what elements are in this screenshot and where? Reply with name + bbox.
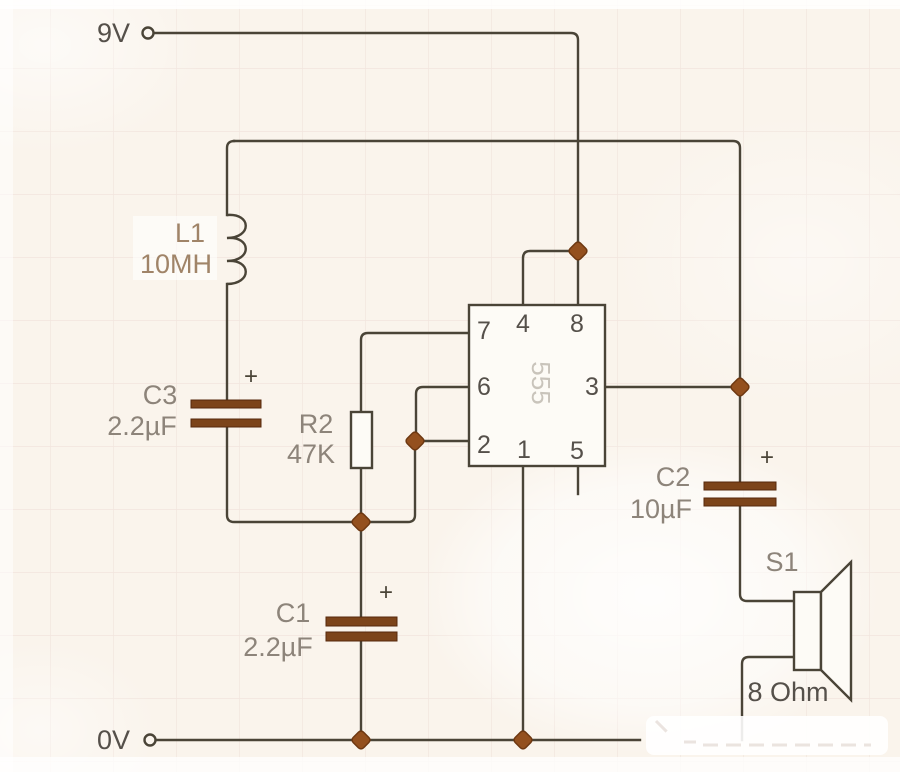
- capacitor C2: [704, 444, 776, 506]
- svg-text:+: +: [379, 579, 393, 606]
- svg-text:555: 555: [526, 361, 556, 404]
- wire pin 7 to R2: [361, 333, 469, 412]
- svg-text:R2: R2: [299, 409, 334, 439]
- svg-text:2.2µF: 2.2µF: [243, 632, 313, 662]
- wire pin 4 from node A: [523, 251, 578, 305]
- svg-text:S1: S1: [765, 547, 798, 577]
- light edges: [0, 0, 900, 9]
- C3 label: [107, 380, 177, 441]
- node A junction (9V / pin4 / pin8): [568, 241, 589, 262]
- svg-text:2.2µF: 2.2µF: [107, 411, 177, 441]
- wire L1 bottom to C3: [226, 284, 228, 402]
- svg-text:6: 6: [477, 373, 491, 401]
- svg-text:+: +: [244, 363, 258, 390]
- svg-text:5: 5: [570, 437, 584, 465]
- speaker S1: [794, 562, 851, 700]
- node C junction (R2 bottom / C3): [351, 512, 372, 533]
- wire left vertical to L1: [227, 141, 234, 215]
- node B junction (pin2 / pin6): [405, 431, 426, 452]
- wire pin 3 to node D: [605, 386, 740, 388]
- resistor R2: [351, 412, 372, 468]
- wire 0V rail: [157, 739, 640, 741]
- svg-text:C2: C2: [656, 462, 691, 492]
- light patches: [420, 435, 880, 755]
- svg-text:C3: C3: [143, 380, 178, 410]
- svg-text:10MH: 10MH: [140, 249, 212, 279]
- wire pin 6: [416, 387, 469, 441]
- wire C3 bottom to bottom horizontal to node C: [227, 427, 415, 522]
- wire R2 bottom through node C to C1: [360, 468, 362, 617]
- svg-text:9V: 9V: [97, 18, 130, 48]
- wire 9V rail: terminal to pin8 vertical: [155, 33, 578, 305]
- wire pin 5 stub: [577, 466, 579, 494]
- wire speaker bottom down: [742, 657, 794, 740]
- terminal 0V: [145, 735, 156, 746]
- wire C1 bottom to 0V rail: [360, 641, 362, 740]
- L1 label: [133, 216, 217, 280]
- C1 label: [243, 598, 313, 662]
- svg-text:47K: 47K: [287, 439, 335, 469]
- inductor L1: [227, 215, 246, 284]
- capacitor C3: [191, 363, 261, 427]
- wire top horizontal rail: [234, 141, 740, 483]
- watermark box: [646, 716, 888, 755]
- svg-text:8 Ohm: 8 Ohm: [747, 677, 828, 707]
- svg-text:L1: L1: [175, 218, 205, 248]
- svg-text:10µF: 10µF: [630, 494, 692, 524]
- svg-text:C1: C1: [276, 598, 311, 628]
- svg-text:2: 2: [477, 431, 491, 459]
- op-amp U1 555 IC body: [469, 305, 605, 466]
- wire C2 bottom to speaker top: [740, 506, 794, 601]
- wire pin 1 to 0V rail: [522, 466, 524, 740]
- svg-text:+: +: [760, 444, 774, 471]
- node E junction (C1 / 0V): [351, 730, 372, 751]
- svg-text:3: 3: [585, 373, 599, 401]
- wire pin 2: [416, 440, 469, 442]
- terminal 9V: [143, 28, 154, 39]
- node F junction (pin1 / 0V): [513, 730, 534, 751]
- svg-text:8: 8: [570, 310, 584, 338]
- C2 label: [630, 462, 692, 524]
- node D junction (pin3 / C2): [730, 377, 751, 398]
- R2 label: [287, 409, 335, 469]
- svg-text:1: 1: [517, 436, 531, 464]
- svg-text:0V: 0V: [97, 725, 130, 755]
- svg-text:4: 4: [516, 310, 530, 338]
- svg-text:7: 7: [477, 317, 491, 345]
- capacitor C1: [326, 579, 397, 641]
